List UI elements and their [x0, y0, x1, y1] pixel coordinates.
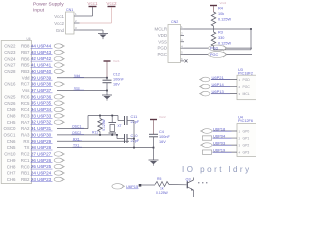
svg-text:RC1: RC1: [21, 158, 30, 163]
port flag PGC: [209, 52, 226, 58]
wire U6 Vss pin to ground: [57, 90, 107, 92]
svg-text:6: 6: [181, 57, 183, 61]
svg-text:RC0: RC0: [21, 164, 30, 169]
svg-text:U6P18: U6P18: [213, 126, 226, 131]
svg-text:U6P15: U6P15: [126, 184, 139, 189]
svg-text:R3: R3: [218, 31, 223, 35]
svg-text:PIC12F6: PIC12F6: [238, 119, 253, 123]
wire PGD: [184, 47, 208, 49]
svg-text:3: 3: [75, 26, 77, 30]
capacitor C10 22pF: [116, 134, 118, 136]
svg-text:Vdd: Vdd: [22, 75, 30, 80]
wire Vcc1 to CN1 pin 1: [92, 7, 94, 16]
svg-text:RB7: RB7: [21, 50, 30, 55]
resistor R11 1M: [99, 116, 101, 119]
off-page connector U6P35: [54, 101, 63, 105]
U4 pin 3 (GP2) net U6P03: [202, 143, 212, 148]
wire OSC1 (bottom): [57, 134, 117, 136]
CN2 pin 6: [181, 60, 185, 62]
svg-text:OSC0: OSC0: [4, 126, 17, 131]
CN1 pin 2: [74, 22, 80, 24]
off-page connector U6P42: [54, 57, 63, 61]
capacitor C11 22pF: [117, 116, 119, 121]
wire caps to ground rail: [133, 121, 135, 148]
svg-text:23 U6P23: 23 U6P23: [31, 177, 52, 182]
svg-text:Vcc2: Vcc2: [159, 115, 166, 119]
svg-text:CH6: CH6: [7, 177, 16, 182]
svg-text:GP3: GP3: [243, 151, 250, 155]
svg-text:3: 3: [181, 38, 183, 42]
svg-text:0.125W: 0.125W: [156, 191, 168, 195]
svg-text:25 U6P25: 25 U6P25: [31, 164, 52, 169]
svg-text:C12: C12: [113, 73, 120, 77]
svg-text:CN28: CN28: [4, 69, 16, 74]
svg-text:RX: RX: [23, 139, 29, 144]
svg-text:R5: R5: [157, 177, 161, 181]
svg-text:CN6: CN6: [7, 139, 16, 144]
svg-text:Gnd: Gnd: [56, 28, 65, 33]
svg-text:33 U6P33: 33 U6P33: [31, 113, 52, 118]
svg-text:37 U6P37: 37 U6P37: [31, 88, 52, 93]
svg-text:RA3: RA3: [21, 133, 30, 138]
off-page connector U6P24: [54, 171, 63, 175]
svg-text:C4: C4: [159, 130, 164, 134]
CN1 pin 3: [74, 29, 80, 31]
svg-text:Vcc2: Vcc2: [54, 21, 64, 26]
svg-text:43 U6P43: 43 U6P43: [31, 50, 52, 55]
svg-text:RB5: RB5: [21, 63, 30, 68]
svg-text:CN26: CN26: [4, 101, 16, 106]
wire crystal top rail: [88, 115, 118, 117]
svg-text:CN5: CN5: [7, 145, 16, 150]
svg-text:CH8: CH8: [7, 164, 16, 169]
node MCLR junction: [250, 28, 252, 30]
svg-text:PGD: PGD: [157, 46, 167, 51]
svg-text:100nF: 100nF: [159, 135, 170, 139]
off-page connector U6P32: [54, 120, 63, 124]
svg-text:CN22: CN22: [4, 44, 16, 49]
wire U6 Vdd pin to C12: [57, 77, 107, 79]
off-page connector U6P26: [54, 158, 63, 162]
svg-text:40 U6P40: 40 U6P40: [31, 69, 52, 74]
svg-text:CN23: CN23: [4, 50, 16, 55]
svg-text:Vcc2: Vcc2: [106, 1, 117, 6]
svg-text:C11: C11: [131, 115, 138, 119]
svg-text:CN16: CN16: [4, 82, 16, 87]
svg-text:CH9: CH9: [7, 158, 16, 163]
off-page connector U6P36: [54, 95, 63, 99]
U4 pin 2 (GP1) net U6P04: [202, 136, 211, 140]
svg-text:330: 330: [218, 36, 224, 40]
wire R3 bottom loop to MCLR: [213, 46, 215, 50]
svg-text:GP1: GP1: [243, 137, 250, 141]
svg-text:Q3: Q3: [186, 178, 191, 182]
wire PGC: [184, 54, 208, 56]
svg-text:PGC: PGC: [243, 85, 251, 89]
off-page connector U6P41: [54, 63, 63, 67]
svg-text:CH10: CH10: [4, 152, 16, 157]
svg-text:22pF: 22pF: [131, 139, 140, 143]
resistor R5 0.125W (horizontal): [155, 182, 169, 187]
U4 pin 4 (GP3) net U6P19: [202, 150, 211, 154]
svg-text:U6P14: U6P14: [212, 82, 225, 87]
svg-text:RA2: RA2: [21, 126, 30, 131]
svg-text:U6P04: U6P04: [213, 133, 226, 138]
svg-text:41 U6P41: 41 U6P41: [31, 63, 52, 68]
svg-text:VDD: VDD: [158, 33, 167, 38]
wire U6 RX row: [57, 140, 129, 142]
svg-text:CH5: CH5: [7, 120, 16, 125]
svg-text:0.125W: 0.125W: [102, 118, 106, 130]
off-page connector U6P38: [54, 82, 63, 86]
svg-text:CN27: CN27: [4, 63, 16, 68]
no-connect X on CN2 pin 6: [185, 59, 188, 62]
svg-text:RB1: RB1: [21, 171, 30, 176]
svg-text:CN2: CN2: [171, 20, 178, 24]
svg-text:100nF: 100nF: [113, 78, 124, 82]
svg-text:VSS: VSS: [158, 39, 167, 44]
crystal XT1: [111, 116, 113, 123]
node Vss junction: [106, 90, 108, 92]
power flag (C4 top): [150, 119, 157, 121]
svg-text:XT: XT: [118, 124, 122, 128]
off-page connector U6P25: [54, 164, 63, 168]
svg-text:34 U6P34: 34 U6P34: [31, 107, 52, 112]
svg-text:RC3: RC3: [21, 113, 30, 118]
svg-text:Vcc1: Vcc1: [113, 59, 120, 63]
off-page connector U6P44: [54, 44, 63, 48]
svg-text:Vcc2: Vcc2: [220, 1, 227, 5]
svg-text:1k: 1k: [160, 187, 164, 191]
svg-text:Power Supply: Power Supply: [33, 2, 64, 8]
svg-text:RB8: RB8: [21, 44, 30, 49]
off-page connector U6P43: [54, 50, 63, 54]
svg-text:16V: 16V: [159, 140, 166, 144]
svg-text:42 U6P42: 42 U6P42: [31, 56, 52, 61]
node junction (U6P15): [139, 184, 142, 187]
svg-text:44 U6P44: 44 U6P44: [31, 44, 52, 49]
svg-text:Input: Input: [33, 8, 45, 14]
ground symbol (C12): [102, 94, 112, 96]
off-page connector U6P33: [54, 114, 63, 118]
svg-text:35 U6P35: 35 U6P35: [31, 101, 52, 106]
svg-text:PGC: PGC: [210, 53, 218, 57]
svg-text:29 U6P29: 29 U6P29: [31, 139, 52, 144]
svg-text:1: 1: [181, 25, 183, 29]
wire MCLR net: [184, 28, 251, 30]
U3 pin 1 (PGD) net U6P21: [201, 77, 210, 82]
svg-text:IO port ldry: IO port ldry: [182, 165, 252, 174]
svg-text:Vcc1: Vcc1: [87, 1, 98, 6]
marks next to Q3: [198, 182, 199, 183]
wire R4 to R3: [213, 26, 215, 32]
ground symbol (C4): [149, 159, 159, 161]
svg-text:2: 2: [181, 32, 183, 36]
svg-text:RC2: RC2: [21, 152, 30, 157]
svg-text:28 U6P28: 28 U6P28: [31, 145, 52, 150]
CN1 pin 1: [74, 15, 80, 17]
svg-text:OSC1: OSC1: [4, 133, 17, 138]
svg-text:Vss: Vss: [22, 88, 30, 93]
svg-text:0.125W: 0.125W: [218, 18, 232, 22]
svg-text:CN24: CN24: [4, 56, 16, 61]
off-page connector U6P34: [54, 107, 63, 111]
wire U6P15 to R5: [141, 184, 155, 186]
capacitor C4 100nF 16V: [153, 120, 155, 134]
svg-text:5: 5: [181, 51, 183, 55]
svg-text:RC5: RC5: [21, 101, 30, 106]
svg-text:Vcc1: Vcc1: [54, 14, 64, 19]
svg-text:10k: 10k: [218, 12, 224, 16]
off-page connector U6P27: [54, 152, 63, 156]
svg-text:39 U6P39: 39 U6P39: [31, 75, 52, 80]
svg-text:31 U6P31: 31 U6P31: [31, 126, 52, 131]
svg-text:30 U6P30: 30 U6P30: [31, 132, 52, 137]
resistor R3 330 0.125W: [211, 32, 215, 46]
svg-text:RC6: RC6: [21, 94, 30, 99]
resistor R4 10k 0.125W: [213, 6, 215, 12]
svg-text:27 U6P27: 27 U6P27: [31, 151, 52, 156]
svg-text:38 U6P38: 38 U6P38: [31, 82, 52, 87]
IC U6 body (PIC microcontroller, left): [1, 41, 31, 184]
svg-text:GP2: GP2: [243, 144, 250, 148]
svg-text:36 U6P36: 36 U6P36: [31, 94, 52, 99]
svg-text:U6: U6: [27, 37, 31, 41]
svg-text:26 U6P26: 26 U6P26: [31, 158, 52, 163]
svg-text:MCL: MCL: [243, 92, 250, 96]
port flag PGD: [209, 45, 226, 51]
svg-text:R4: R4: [218, 7, 223, 11]
off-page connector U6P23: [54, 177, 63, 181]
svg-text:CN25: CN25: [4, 94, 16, 99]
svg-text:U6P21: U6P21: [212, 75, 225, 80]
svg-text:22pF: 22pF: [131, 120, 140, 124]
power flag (C12 top): [104, 60, 111, 62]
U3 pin 2 (PGC) net U6P14: [201, 84, 210, 89]
svg-text:U6P13: U6P13: [212, 89, 225, 94]
svg-text:32 U6P32: 32 U6P32: [31, 120, 52, 125]
svg-text:MCLR: MCLR: [155, 27, 167, 32]
U3 pin 3 (MCL) net U6P13: [201, 91, 210, 96]
node C4/ground junction: [153, 147, 155, 149]
capacitor C12 100nF 16V: [103, 79, 112, 81]
off-page connector U6P15 (bottom middle): [112, 184, 123, 189]
svg-text:CN9: CN9: [7, 107, 16, 112]
wire Vcc2 to CN1 pin 2: [111, 7, 113, 23]
svg-text:4: 4: [181, 44, 183, 48]
wire U6 TX row to ground node: [57, 147, 154, 149]
svg-text:U6P19: U6P19: [213, 147, 226, 152]
U4 pin 1 (GP0) net U6P18: [202, 129, 212, 134]
svg-text:CN8: CN8: [7, 113, 16, 118]
svg-text:U6P03: U6P03: [213, 140, 226, 145]
svg-text:2: 2: [75, 19, 77, 23]
svg-text:RC7: RC7: [21, 82, 30, 87]
wire CN1 pin 3 to ground: [80, 29, 104, 31]
svg-text:RC4: RC4: [21, 107, 30, 112]
svg-text:RB6: RB6: [21, 56, 30, 61]
svg-text:PGC: PGC: [157, 52, 167, 57]
wire power to Vdd node: [106, 62, 108, 78]
svg-text:CH7: CH7: [7, 171, 16, 176]
svg-text:GP0: GP0: [243, 130, 250, 134]
svg-text:RA7: RA7: [21, 120, 30, 125]
off-page connector U6P40: [54, 69, 63, 73]
wire R5 to Q3 base: [169, 184, 187, 186]
svg-text:PGD: PGD: [210, 47, 218, 51]
node Vdd junction: [106, 77, 108, 79]
wire OSC0 to crystal rail: [57, 128, 88, 130]
svg-text:0.125W: 0.125W: [218, 41, 232, 45]
svg-text:24 U6P24: 24 U6P24: [31, 171, 52, 176]
svg-text:RB3: RB3: [21, 69, 30, 74]
svg-text:RB2: RB2: [21, 177, 30, 182]
svg-text:R11: R11: [92, 131, 98, 135]
power flag (R4 top): [210, 5, 217, 7]
svg-text:TX: TX: [24, 145, 30, 150]
ground symbol (CN1): [98, 33, 108, 35]
svg-text:1: 1: [75, 12, 77, 16]
svg-text:16V: 16V: [113, 83, 120, 87]
svg-text:CN1: CN1: [66, 8, 73, 12]
svg-text:PGD: PGD: [243, 78, 251, 82]
